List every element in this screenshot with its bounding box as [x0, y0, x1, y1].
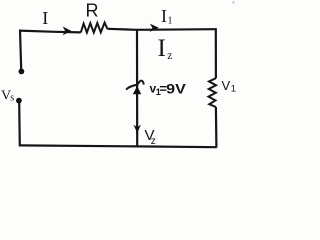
speckle — [233, 2, 235, 4]
resistor V1 (load) — [209, 78, 217, 107]
voltage arrow Vz — [134, 125, 141, 134]
label Iz — [158, 35, 173, 62]
svg-text:1: 1 — [168, 16, 173, 27]
label R — [86, 0, 99, 20]
wire right vertical upper — [215, 28, 217, 78]
svg-text:s: s — [10, 93, 14, 104]
zener diode cathode curve — [126, 81, 143, 90]
svg-text:I: I — [158, 35, 166, 62]
wire left vertical lower — [18, 103, 21, 146]
current arrow I — [63, 27, 72, 36]
wire top-right horizontal — [107, 29, 216, 30]
svg-text:R: R — [86, 0, 99, 20]
terminal node lower dot — [16, 98, 22, 104]
label v1=9V — [150, 81, 186, 97]
zener diode anode triangle v1=9V — [133, 86, 141, 94]
wire left vertical upper — [20, 30, 21, 70]
wire bottom horizontal — [19, 145, 217, 147]
svg-text:I: I — [161, 6, 167, 26]
svg-text:9V: 9V — [166, 81, 186, 96]
svg-text:z: z — [151, 136, 156, 147]
svg-text:z: z — [167, 50, 172, 62]
svg-text:1: 1 — [231, 84, 236, 95]
wire top-left horizontal — [19, 31, 81, 33]
current arrow I1 — [150, 24, 159, 32]
svg-text:I: I — [42, 8, 48, 28]
svg-text:V: V — [222, 78, 231, 93]
label Vs — [1, 89, 14, 104]
label V1 — [222, 78, 237, 95]
wire middle vertical branch — [136, 30, 138, 147]
label I1 — [161, 6, 173, 27]
terminal node upper dot — [19, 69, 25, 75]
resistor R — [81, 23, 108, 33]
label I — [42, 8, 48, 28]
label Vz — [145, 127, 156, 147]
wire right vertical lower — [215, 107, 218, 147]
